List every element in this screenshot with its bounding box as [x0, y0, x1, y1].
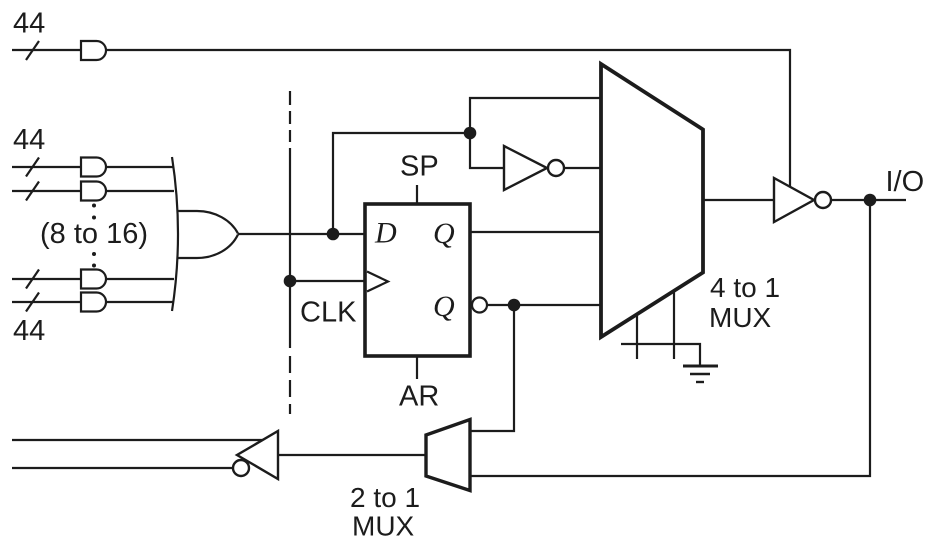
wire inverter to MUX input 1 — [564, 167, 601, 169]
node I/O junction — [864, 194, 877, 207]
svg-text:44: 44 — [13, 8, 45, 40]
node CLK junction — [284, 275, 297, 288]
inverter U2 — [504, 146, 547, 190]
svg-text:44: 44 — [13, 315, 45, 347]
tri-state output inverter — [774, 178, 814, 222]
node D-feedback junction — [327, 228, 340, 241]
bus slash input 4 — [26, 293, 39, 312]
node feedback junction — [464, 127, 477, 140]
svg-text:2 to 1: 2 to 1 — [350, 482, 420, 513]
svg-text:D: D — [374, 217, 397, 250]
wire P2 to OR — [106, 190, 174, 192]
wire complement feedback to array — [12, 467, 233, 469]
wire input 1 — [12, 166, 81, 168]
4-to-1 MUX body — [601, 64, 703, 337]
wire I/O feedback down — [470, 200, 870, 476]
wire to MUX input 0 — [470, 98, 601, 133]
svg-text:44: 44 — [13, 124, 45, 156]
bus slash input 2 — [26, 182, 39, 201]
wire input 4 — [12, 301, 81, 303]
ground symbol — [683, 365, 718, 368]
MUX select line S0 — [636, 314, 638, 359]
OR gate extended input arc — [172, 157, 178, 311]
cell boundary dashed line (top) — [289, 91, 291, 105]
svg-text:MUX: MUX — [352, 511, 415, 542]
wire OE product term input — [12, 49, 81, 51]
AND gate P3 — [81, 270, 106, 289]
AND gate P2 — [81, 182, 106, 201]
AR pin — [416, 356, 418, 379]
AND gate (OE product term) — [81, 41, 106, 60]
wire P4 to OR — [106, 301, 174, 303]
node Q-bar junction — [508, 299, 521, 312]
MUX select line S1 — [673, 291, 675, 359]
wire Q-bar to 2:1 MUX — [470, 305, 514, 431]
svg-text:SP: SP — [400, 151, 439, 183]
svg-text:Q: Q — [433, 290, 455, 323]
wire input 3 — [12, 278, 81, 280]
svg-text:AR: AR — [399, 381, 439, 413]
svg-text:I/O: I/O — [886, 166, 925, 198]
Q-bar bubble — [472, 298, 487, 313]
wire 2:1 MUX output — [278, 454, 426, 456]
svg-text:CLK: CLK — [300, 297, 357, 329]
wire input 2 — [12, 190, 81, 192]
wire P1 to OR — [106, 166, 174, 168]
feedback inverter bubble — [233, 460, 249, 476]
tri-state bubble — [815, 192, 831, 208]
wire OE line to tri-state enable — [106, 50, 790, 187]
svg-text:MUX: MUX — [709, 302, 772, 333]
svg-text:Q: Q — [433, 217, 455, 250]
ellipsis dots — [92, 204, 96, 268]
ground rail — [621, 344, 700, 366]
clock line (vertical) — [289, 148, 291, 348]
wire MUX output — [703, 199, 774, 201]
2-to-1 MUX body — [426, 420, 470, 491]
wire to I/O pin — [831, 199, 906, 201]
wire OR output to D — [238, 233, 365, 235]
OR gate body — [178, 211, 239, 258]
cell boundary dashed line (bottom) — [289, 356, 291, 373]
D flip-flop body — [365, 204, 470, 356]
AND gate P4 — [81, 293, 106, 312]
wire true feedback to array — [12, 439, 263, 441]
svg-text:(8 to 16): (8 to 16) — [40, 218, 148, 250]
wire P3 to OR — [106, 278, 174, 280]
SP pin — [416, 185, 418, 204]
feedback inverter (to array) — [237, 431, 278, 479]
inverter U2 bubble — [548, 160, 564, 176]
bus slash input 3 — [26, 270, 39, 289]
svg-text:4 to 1: 4 to 1 — [710, 272, 780, 303]
CLK edge triangle — [367, 272, 388, 292]
bus slash input 1 — [26, 158, 39, 177]
wire Q to MUX input 2 — [470, 231, 601, 233]
wire CLK — [290, 280, 365, 282]
bus slash (top) — [26, 41, 39, 60]
wire to inverter input — [470, 133, 504, 168]
wire feedback from D node up — [333, 133, 470, 234]
wire Q-bar to MUX input 3 — [487, 304, 601, 306]
AND gate P1 — [81, 158, 106, 177]
